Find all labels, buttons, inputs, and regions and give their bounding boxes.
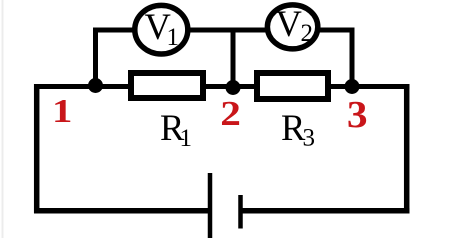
wire: riser node 2 to top rail (231, 28, 236, 88)
wire: right rail (404, 84, 410, 213)
node 2 junction dot (226, 80, 241, 95)
resistor R3 body (257, 73, 328, 99)
node 1 junction dot (88, 78, 103, 93)
wire: left rail (34, 84, 40, 213)
svg-text:3: 3 (303, 124, 316, 151)
wire: riser node 3 to top rail (350, 28, 355, 87)
svg-text:1: 1 (180, 125, 193, 152)
left edge faint border (2, 0, 4, 238)
voltmeter V1 circle (135, 5, 188, 54)
svg-text:3: 3 (347, 94, 368, 136)
wire: bottom rail left to battery (34, 208, 210, 214)
resistor R1 body (131, 73, 203, 98)
svg-text:1: 1 (52, 93, 72, 130)
wire: main rail through resistors (34, 84, 410, 89)
svg-text:2: 2 (220, 95, 241, 133)
node 3 junction dot (345, 79, 360, 94)
wire: bottom rail right from battery (241, 208, 410, 214)
wire: riser node 1 to top rail (93, 28, 98, 87)
svg-text:V: V (276, 3, 302, 44)
voltmeter V2 circle (267, 5, 317, 49)
svg-text:1: 1 (167, 24, 180, 51)
wire: top rail from above node 1 to above node 3 (93, 28, 355, 33)
battery short plate (238, 195, 243, 229)
battery long plate (208, 173, 213, 238)
svg-text:2: 2 (301, 20, 314, 47)
